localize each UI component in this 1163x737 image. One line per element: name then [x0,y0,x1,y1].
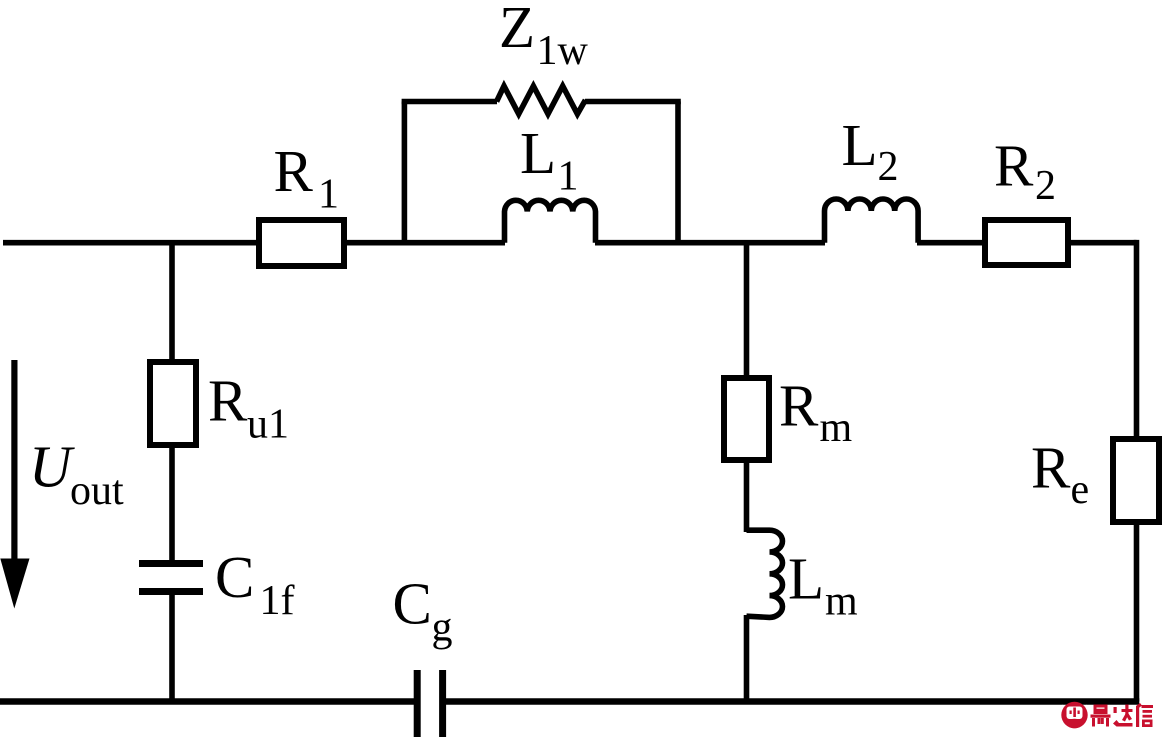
svg-text:1: 1 [318,172,339,218]
wire R1 to L1 [345,240,505,246]
wire bottom left segment [0,698,414,705]
svg-text:R: R [994,132,1034,198]
svg-text:1: 1 [558,154,579,200]
svg-text:g: g [432,605,453,651]
wire top-left horizontal [3,240,258,246]
char da [1114,707,1117,713]
watermark logo [1059,702,1091,729]
resistor Rm [724,378,769,460]
svg-text:1f: 1f [260,578,295,624]
inductor Lm [747,530,783,617]
svg-text:2: 2 [1035,163,1056,209]
wire left vertical upper (node A to Ru1) [169,240,175,364]
svg-text:2: 2 [878,144,899,190]
wire right vertical upper [1134,240,1140,440]
svg-text:R: R [779,372,819,438]
svg-text:u1: u1 [247,402,289,448]
resistor Re [1113,439,1159,522]
char xin [1136,706,1139,727]
resistor R2 [985,220,1068,265]
wire R2 to top-right corner [1068,240,1137,246]
wire L1 to L2 (through node B) [595,240,825,246]
svg-text:m: m [825,579,858,625]
wire L2 to R2 [917,240,985,246]
arrow Uout [11,360,17,565]
wire Z-branch top right [585,99,681,105]
svg-text:R: R [208,367,248,433]
wire right vertical lower [1134,521,1140,702]
capacitor Cg [417,670,442,737]
resistor R1 [259,220,344,266]
svg-text:C: C [215,544,254,610]
inductor L2 [825,199,919,243]
wire bottom right segment [446,698,1139,705]
char ding [1094,705,1108,715]
svg-text:L: L [520,120,556,186]
svg-text:e: e [1071,467,1090,513]
wire Z-branch top left [402,99,497,105]
svg-text:m: m [820,405,853,451]
watermark text (stylized CJK strokes) [1091,703,1154,727]
svg-text:U: U [29,434,75,500]
svg-text:R: R [274,138,314,204]
wire C1f to bottom [169,593,175,702]
wire Z-branch right vertical [675,102,681,243]
wire middle vertical upper (node B to Rm) [744,240,750,381]
resistor Z1w (zigzag) [497,86,586,114]
wire Rm to Lm [744,460,750,532]
svg-text:L: L [842,112,878,178]
resistor Ru1 [150,362,196,445]
capacitor C1f [139,564,203,592]
wire Z-branch left vertical [402,102,408,243]
svg-text:Z: Z [499,0,535,60]
svg-text:R: R [1031,435,1071,501]
svg-text:L: L [788,545,824,611]
inductor L1 [505,200,596,242]
wire Lm to bottom [744,615,750,702]
wire Ru1 to C1f [169,446,175,562]
svg-text:out: out [70,468,124,514]
svg-text:1w: 1w [537,28,589,74]
svg-text:C: C [393,571,432,637]
